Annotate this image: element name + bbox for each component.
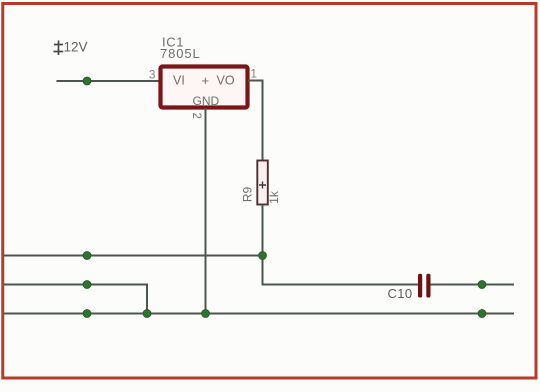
svg-text:2: 2: [190, 113, 202, 119]
wire middle rail with bend down: [4, 285, 147, 314]
wire resistor bottom to cap row: [263, 205, 419, 285]
svg-text:GND: GND: [193, 94, 220, 108]
node cap rail junction: [478, 281, 486, 289]
wire supply to IC pin 3: [57, 80, 161, 82]
supply +12V: [54, 40, 88, 56]
node middle rail junction: [83, 281, 91, 289]
node bottom rail junction D: [478, 310, 486, 318]
wire capacitor right to node: [431, 284, 515, 286]
svg-text:1k: 1k: [267, 190, 281, 204]
resistor R9: [240, 161, 281, 205]
svg-text:7805L: 7805L: [160, 46, 201, 61]
svg-text:VO: VO: [217, 74, 235, 88]
wire bottom rail: [4, 313, 514, 315]
node bottom rail junction A: [83, 310, 91, 318]
node bottom rail junction C (GND line): [202, 310, 210, 318]
node resistor line / top rail junction: [259, 252, 267, 260]
svg-text:C10: C10: [388, 286, 413, 301]
wire IC pin 2 (GND) down to bottom rail: [205, 108, 207, 314]
wire IC pin 1 to resistor top: [248, 81, 263, 161]
svg-text:+: +: [202, 73, 210, 88]
node top rail junction: [83, 252, 91, 260]
svg-text:12V: 12V: [64, 40, 88, 55]
svg-text:3: 3: [149, 70, 155, 82]
svg-text:VI: VI: [173, 74, 185, 88]
node bottom rail junction B: [143, 310, 151, 318]
node supply junction: [83, 77, 91, 85]
svg-text:R9: R9: [240, 187, 254, 203]
svg-text:1: 1: [251, 69, 257, 81]
IC IC1: 7805L voltage regulator: [160, 35, 248, 109]
wire top rail: [4, 255, 263, 257]
capacitor C10: [388, 274, 431, 301]
